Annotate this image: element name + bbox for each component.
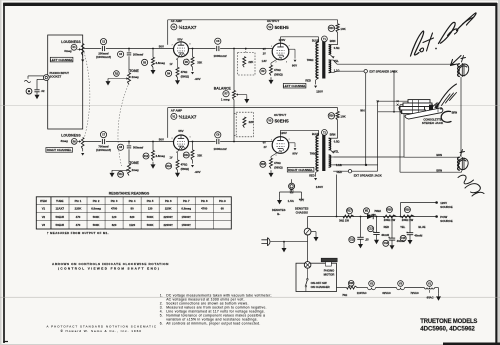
svg-text:R11: R11 bbox=[118, 173, 123, 176]
label RIGHT CHANNEL boxed 2 bbox=[287, 167, 314, 172]
capacitor C2 bbox=[96, 46, 111, 59]
svg-text:4700: 4700 bbox=[201, 207, 208, 211]
arrow -90V bottom bbox=[191, 160, 201, 174]
control R1 loudness left bbox=[64, 44, 77, 53]
svg-text:110VAC: 110VAC bbox=[357, 291, 367, 295]
svg-text:R15: R15 bbox=[261, 163, 266, 166]
transformer T1 primary bbox=[316, 40, 319, 79]
wire jack v 394 bbox=[393, 70, 395, 112]
svg-text:(1000mmf): (1000mmf) bbox=[96, 55, 111, 59]
wire phono upper bbox=[28, 76, 44, 79]
svg-text:80: 80 bbox=[131, 207, 135, 211]
svg-text:120V: 120V bbox=[279, 38, 286, 42]
svg-text:RESISTANCE READINGS: RESISTANCE READINGS bbox=[109, 191, 150, 195]
svg-text:3: 3 bbox=[176, 152, 177, 154]
wire heater line bbox=[337, 287, 347, 289]
T1 red lead bbox=[305, 78, 323, 94]
ground below C1 bbox=[35, 92, 40, 99]
svg-text:BRN: BRN bbox=[436, 153, 442, 157]
svg-text:LEFT CHANNEL: LEFT CHANNEL bbox=[283, 84, 306, 88]
svg-text:RED: RED bbox=[384, 225, 390, 229]
svg-text:15000†: 15000† bbox=[182, 215, 192, 219]
svg-text:MOTOR: MOTOR bbox=[324, 272, 336, 276]
fuse symbol bbox=[288, 189, 295, 203]
label 90V top bbox=[292, 63, 297, 67]
resistor R19 filter bbox=[401, 207, 414, 222]
svg-text:90V: 90V bbox=[292, 151, 297, 155]
svg-text:A PHOTOFACT STANDARD NOTATION: A PHOTOFACT STANDARD NOTATION SCHEMATIC bbox=[47, 324, 158, 328]
svg-text:0V: 0V bbox=[263, 141, 266, 144]
on-off switch bbox=[305, 268, 308, 291]
svg-text:7: 7 bbox=[289, 45, 290, 47]
label CONSOLETTE STEREO JACK bbox=[422, 118, 444, 126]
wire to tone cap bbox=[128, 49, 130, 73]
wire heater 3 bbox=[404, 288, 424, 296]
cathode wire V3 bbox=[271, 153, 278, 159]
phono motor box outer bbox=[296, 263, 337, 291]
ground tone top bbox=[106, 79, 111, 86]
B+ rail top bbox=[168, 20, 338, 45]
svg-text:BRN: BRN bbox=[452, 111, 458, 115]
svg-text:70MA: 70MA bbox=[374, 209, 381, 213]
wire top channel main bbox=[84, 48, 273, 50]
C7 designator bbox=[100, 132, 106, 138]
ground cathode V3 bbox=[269, 170, 274, 177]
svg-text:AF AMP: AF AMP bbox=[171, 19, 182, 23]
B+ rail bottom bbox=[168, 108, 338, 138]
resistor R9k cathode V2 bbox=[260, 65, 283, 76]
ground below R12 bbox=[151, 162, 156, 169]
motor M3 bbox=[304, 262, 311, 269]
svg-text:(560Ω): (560Ω) bbox=[181, 74, 190, 78]
svg-text:22K: 22K bbox=[249, 120, 254, 124]
label TONE top bbox=[129, 69, 139, 73]
wire V3 plate bbox=[281, 130, 319, 137]
tube V2 designator bbox=[267, 24, 289, 30]
svg-text:RED: RED bbox=[309, 173, 315, 177]
svg-text:C12: C12 bbox=[350, 239, 355, 242]
svg-text:500K: 500K bbox=[147, 215, 154, 219]
capacitor C3 series bbox=[127, 53, 143, 57]
svg-text:470: 470 bbox=[76, 215, 81, 219]
svg-text:Pin 7: Pin 7 bbox=[183, 199, 190, 203]
svg-text:0V: 0V bbox=[263, 48, 266, 51]
svg-text:50V: 50V bbox=[159, 45, 164, 49]
svg-text:BRN: BRN bbox=[436, 168, 442, 172]
svg-text:ON CHANGER: ON CHANGER bbox=[311, 285, 330, 289]
speaker top scribble bbox=[459, 64, 469, 75]
fold line lower bbox=[0, 296, 500, 298]
heater V3 bbox=[397, 281, 405, 290]
label 50V bottom bbox=[159, 138, 164, 142]
transformer T1 designator bbox=[312, 36, 336, 43]
pin numbers V3 bbox=[271, 139, 290, 157]
svg-text:2: 2 bbox=[276, 61, 277, 63]
resistor R16 10K bottom bbox=[328, 111, 346, 120]
svg-text:YEL: YEL bbox=[334, 149, 339, 153]
svg-text:C14: C14 bbox=[384, 242, 389, 245]
capacitor C9 coupling bottom bbox=[213, 132, 226, 152]
ground balance wiper bbox=[244, 96, 249, 103]
svg-text:Pin 2: Pin 2 bbox=[93, 199, 100, 203]
truetone models title bbox=[420, 319, 477, 333]
svg-text:V1: V1 bbox=[42, 207, 46, 211]
loudness right bottom arrow bbox=[81, 149, 84, 155]
ground C15 bbox=[408, 235, 413, 245]
transformer T2 core bbox=[322, 135, 325, 171]
ac plug bbox=[261, 238, 270, 246]
svg-text:1: 1 bbox=[271, 140, 272, 142]
pin numbers V2 bbox=[271, 45, 290, 63]
label 55V bottom bbox=[178, 129, 183, 133]
capacitor C1 bbox=[34, 89, 45, 93]
svg-text:470: 470 bbox=[76, 223, 81, 227]
svg-text:620: 620 bbox=[130, 215, 135, 219]
handwriting Left bbox=[411, 31, 437, 56]
svg-text:SOURCE: SOURCE bbox=[440, 205, 452, 209]
op V2 pentode bbox=[272, 43, 289, 60]
label 1V bottom bbox=[170, 156, 173, 159]
svg-text:TRUETONE MODELS: TRUETONE MODELS bbox=[420, 319, 477, 325]
resistor R12 grid leak bottom bbox=[143, 142, 165, 161]
handwriting P flen bbox=[437, 84, 457, 108]
svg-text:½12AX7: ½12AX7 bbox=[179, 113, 197, 119]
svg-text:2meg: 2meg bbox=[132, 168, 139, 172]
svg-text:Pin 1: Pin 1 bbox=[75, 199, 82, 203]
svg-text:R10: R10 bbox=[329, 27, 334, 30]
node R12 top bbox=[152, 141, 154, 143]
svg-text:SOURCE: SOURCE bbox=[440, 219, 452, 223]
record changer block outline bbox=[48, 35, 83, 129]
node junction tone top bbox=[128, 48, 130, 50]
svg-text:CHASSIS: CHASSIS bbox=[296, 210, 309, 214]
wire ext jack top bbox=[333, 71, 364, 72]
resistor R10 10K bbox=[328, 24, 346, 33]
svg-text:6.8meg: 6.8meg bbox=[156, 154, 166, 158]
wire ext jack bottom 2 bbox=[333, 170, 377, 172]
svg-text:B-: B- bbox=[277, 212, 280, 216]
capacitor C12 bbox=[349, 216, 369, 243]
cathode wire V2 bbox=[271, 59, 278, 65]
wire right channel main bbox=[84, 141, 273, 143]
svg-text:39Ω 1W: 39Ω 1W bbox=[339, 219, 349, 223]
svg-text:STEREO JACK: STEREO JACK bbox=[422, 121, 444, 125]
resistor R20 ballast bbox=[342, 281, 357, 297]
wire plug to interlock bbox=[271, 241, 308, 243]
svg-text:12AX7: 12AX7 bbox=[55, 207, 64, 211]
terminal pow source bbox=[435, 215, 452, 223]
label 55V top bbox=[177, 37, 182, 41]
speaker bottom scribble bbox=[458, 158, 468, 169]
svg-text:22000†: 22000† bbox=[164, 223, 174, 227]
node R3 top bbox=[152, 48, 154, 50]
svg-text:0.5Ω: 0.5Ω bbox=[334, 46, 340, 50]
C8 designator bbox=[118, 144, 124, 150]
svg-text:4DC5960, 4DC5962: 4DC5960, 4DC5962 bbox=[420, 326, 475, 333]
wire to tone cap bottom bbox=[128, 142, 130, 164]
ground cathode V1b bbox=[175, 170, 180, 177]
loudness left bottom arrow bbox=[81, 56, 84, 63]
handwriting check arrow bbox=[451, 56, 462, 66]
svg-text:55V: 55V bbox=[177, 37, 182, 41]
resistor R8 22K top bbox=[243, 57, 254, 68]
label 50V top bbox=[159, 45, 164, 49]
svg-text:BLUE: BLUE bbox=[418, 225, 425, 229]
svg-text:R17: R17 bbox=[347, 210, 352, 213]
svg-text:Pin 3: Pin 3 bbox=[111, 199, 118, 203]
svg-text:120V: 120V bbox=[280, 131, 287, 135]
svg-text:620: 620 bbox=[112, 223, 117, 227]
speaker coil top bbox=[458, 63, 464, 77]
wire R16 to T2 bbox=[331, 108, 338, 139]
T1 taps bbox=[329, 45, 340, 73]
node balance bottom bbox=[233, 141, 235, 143]
svg-text:OUTPUT: OUTPUT bbox=[274, 113, 287, 117]
svg-text:1.5A: 1.5A bbox=[288, 199, 295, 203]
label BLUE filter bbox=[418, 225, 425, 229]
svg-text:2: 2 bbox=[172, 138, 173, 140]
label LEFT CHANNEL boxed bbox=[50, 57, 73, 62]
svg-text:.25: .25 bbox=[365, 238, 369, 242]
screen arrow 90V bottom bbox=[288, 143, 296, 151]
ground C12 bbox=[358, 239, 363, 248]
svg-text:4700: 4700 bbox=[111, 207, 118, 211]
tube V1 designator top bbox=[171, 24, 197, 30]
svg-text:470Ω: 470Ω bbox=[274, 161, 281, 165]
svg-text:6: 6 bbox=[190, 43, 191, 45]
wire speaker top bbox=[333, 60, 459, 64]
ground cathode V1a bbox=[175, 78, 180, 85]
svg-text:130: 130 bbox=[148, 207, 153, 211]
wire ext jack bottom bbox=[333, 164, 367, 166]
svg-text:120: 120 bbox=[112, 215, 117, 219]
stereo jack contact 2 bbox=[403, 103, 432, 107]
svg-text:.02: .02 bbox=[41, 89, 45, 93]
stereo jack plug outline bbox=[405, 108, 443, 119]
svg-text:SOCKET: SOCKET bbox=[50, 75, 62, 79]
wire heater 1 bbox=[357, 288, 368, 296]
phono input socket bbox=[43, 71, 69, 81]
svg-text:RIGHT CHANNEL: RIGHT CHANNEL bbox=[288, 168, 313, 172]
svg-text:† MEASURED FROM OUTPUT OF M1: † MEASURED FROM OUTPUT OF M1. bbox=[47, 231, 109, 235]
svg-text:470Ω: 470Ω bbox=[181, 70, 188, 74]
svg-text:YEL: YEL bbox=[334, 59, 339, 63]
wire V2 plate bbox=[281, 37, 319, 44]
svg-text:1V: 1V bbox=[170, 156, 173, 159]
label 120V top bbox=[279, 38, 286, 42]
cathode wire V1b bbox=[178, 150, 180, 160]
svg-text:22000†: 22000† bbox=[164, 215, 174, 219]
svg-text:R14: R14 bbox=[184, 154, 189, 157]
notes list bbox=[160, 294, 272, 326]
tube V1 designator bottom bbox=[171, 113, 197, 119]
svg-text:22K: 22K bbox=[248, 60, 253, 64]
heater V1 bbox=[425, 281, 435, 289]
svg-text:Pin 5: Pin 5 bbox=[147, 199, 154, 203]
label 1V top bbox=[170, 63, 173, 66]
C1 designator bbox=[26, 88, 32, 94]
svg-text:1: 1 bbox=[271, 46, 272, 48]
svg-text:3meg: 3meg bbox=[64, 49, 72, 53]
svg-text:15000†: 15000† bbox=[182, 223, 192, 227]
wire interlock to motor bbox=[307, 235, 309, 262]
svg-text:50EH5: 50EH5 bbox=[55, 215, 64, 219]
svg-text:140V: 140V bbox=[371, 214, 377, 217]
handwritten F top bbox=[461, 56, 466, 63]
capacitor C8 series bbox=[127, 146, 143, 150]
svg-text:½12AX7: ½12AX7 bbox=[179, 24, 197, 30]
svg-text:500K: 500K bbox=[147, 223, 154, 227]
wire jack step bottom bbox=[367, 165, 378, 171]
svg-text:7: 7 bbox=[289, 139, 290, 141]
wire heater end bbox=[435, 288, 442, 301]
svg-text:10K: 10K bbox=[340, 27, 346, 31]
ext speaker jack bottom bbox=[348, 170, 382, 178]
svg-text:50EH5: 50EH5 bbox=[55, 223, 64, 227]
node 22K top bbox=[245, 48, 247, 53]
wire jack v 377 bbox=[377, 101, 379, 165]
svg-text:YEL: YEL bbox=[400, 225, 405, 229]
svg-text:Pin 4: Pin 4 bbox=[129, 199, 136, 203]
svg-text:230Ω 1W: 230Ω 1W bbox=[402, 218, 414, 222]
gang dashed loudness bbox=[84, 52, 90, 137]
stereo jack contact 4 bbox=[402, 110, 426, 114]
svg-text:R13: R13 bbox=[166, 165, 171, 168]
svg-text:470Ω: 470Ω bbox=[274, 68, 281, 72]
svg-text:2V: 2V bbox=[263, 52, 266, 55]
svg-text:130V: 130V bbox=[316, 185, 324, 189]
svg-text:V3: V3 bbox=[42, 223, 46, 227]
legend tee bbox=[280, 192, 302, 197]
loudness right pot bbox=[78, 138, 84, 150]
tone pot bottom bbox=[128, 164, 139, 176]
gang dashed tone bbox=[118, 86, 128, 167]
dashed box 22K bottom bbox=[234, 112, 254, 137]
svg-text:500mmf: 500mmf bbox=[133, 146, 143, 150]
label 90V bottom bbox=[292, 151, 297, 155]
wire R10 to T1 bbox=[331, 20, 338, 45]
svg-text:780Ω: 780Ω bbox=[310, 151, 317, 155]
svg-text:1000mmf: 1000mmf bbox=[213, 54, 226, 58]
dashed box 22K top bbox=[238, 53, 255, 75]
legend B- ground bbox=[272, 197, 286, 216]
capacitor C7 bbox=[96, 139, 111, 152]
transformer T1 secondary bbox=[329, 45, 335, 73]
label OUTPUT top bbox=[267, 19, 280, 23]
svg-text:RIGHT CHANNEL: RIGHT CHANNEL bbox=[47, 148, 72, 152]
svg-text:BRN: BRN bbox=[330, 132, 336, 136]
stereo jack contact 3 bbox=[400, 107, 425, 111]
heater V2 bbox=[368, 281, 376, 290]
svg-text:OUTPUT: OUTPUT bbox=[267, 19, 280, 23]
label LOUDNESS (left) bbox=[61, 40, 81, 44]
screen arrow 90V top bbox=[288, 49, 296, 62]
svg-text:780Ω: 780Ω bbox=[307, 58, 314, 62]
ground ac neutral bbox=[282, 241, 287, 253]
svg-text:TUBE: TUBE bbox=[56, 199, 64, 203]
tube V3 designator bbox=[267, 118, 289, 124]
svg-text:500K: 500K bbox=[93, 215, 100, 219]
svg-text:-90V: -90V bbox=[194, 170, 200, 174]
table resistance readings bbox=[36, 191, 231, 235]
balance pot R7 bbox=[221, 90, 236, 101]
resistor R3 grid leak top bbox=[142, 49, 166, 68]
resistor 33K bottom bbox=[183, 141, 202, 161]
svg-text:1.: 1. bbox=[160, 294, 163, 298]
svg-text:C15: C15 bbox=[401, 237, 406, 240]
label BALANCE bbox=[214, 86, 232, 90]
svg-text:1 meg: 1 meg bbox=[221, 97, 230, 101]
svg-text:1120: 1120 bbox=[129, 223, 136, 227]
svg-text:120V: 120V bbox=[316, 90, 323, 94]
svg-text:BALANCE: BALANCE bbox=[214, 86, 232, 90]
stereo jack right terminals bbox=[437, 104, 443, 112]
wire speaker bottom return bbox=[461, 171, 463, 173]
pin numbers V1a bbox=[172, 43, 191, 60]
tone pot top R2 bbox=[128, 73, 139, 85]
svg-text:50EH5: 50EH5 bbox=[275, 25, 289, 30]
stereo jack wires left bbox=[378, 101, 408, 112]
svg-text:R12: R12 bbox=[144, 155, 149, 158]
svg-text:500K: 500K bbox=[93, 223, 100, 227]
resistor R5 33K top bbox=[183, 48, 202, 68]
rectifier M1 bbox=[364, 208, 382, 219]
label 780 ohm T2 bbox=[310, 151, 317, 155]
label AF AMP top bbox=[171, 19, 182, 23]
svg-text:1V: 1V bbox=[170, 63, 173, 66]
svg-text:RED: RED bbox=[305, 79, 311, 83]
label 780 ohm T1 bbox=[307, 58, 314, 62]
svg-text:Pin 9: Pin 9 bbox=[219, 199, 226, 203]
transformer T2 designator bbox=[312, 130, 336, 137]
node balance top bbox=[233, 48, 235, 50]
stereo jack gang ticks bbox=[413, 100, 419, 114]
svg-text:50V: 50V bbox=[159, 138, 164, 142]
svg-text:1000mmf: 1000mmf bbox=[213, 147, 226, 151]
svg-text:10K: 10K bbox=[340, 115, 346, 119]
ground C14 bbox=[390, 240, 395, 249]
svg-text:LEFT CHANNEL: LEFT CHANNEL bbox=[50, 58, 73, 62]
wire jack v 400 bbox=[399, 105, 401, 173]
ground C13 bbox=[374, 235, 379, 245]
svg-text:(1200mmf): (1200mmf) bbox=[96, 148, 111, 152]
tone top control designator bbox=[114, 71, 120, 77]
op V3 pentode bbox=[272, 137, 289, 154]
fold line upper bbox=[0, 105, 500, 107]
photofact credit bbox=[47, 324, 158, 333]
heater V1 tap bbox=[427, 290, 434, 300]
interlock ground bbox=[311, 232, 319, 242]
svg-text:BRN: BRN bbox=[330, 39, 336, 43]
transformer T2 secondary bbox=[329, 138, 335, 167]
labels V2 left bbox=[262, 48, 267, 63]
svg-text:ARROWS ON CONTROLS INDICATE CL: ARROWS ON CONTROLS INDICATE CLOCKWISE RO… bbox=[52, 262, 169, 266]
svg-text:(560Ω): (560Ω) bbox=[274, 165, 283, 169]
label LOUDNESS (right) bbox=[61, 134, 81, 138]
label 120V bottom bbox=[280, 131, 287, 135]
handwritten C bbox=[441, 111, 451, 122]
svg-text:220K: 220K bbox=[165, 207, 172, 211]
capacitor C13 bbox=[368, 216, 390, 238]
label ON-OFF SW bbox=[311, 281, 330, 289]
handwriting Dead bbox=[439, 13, 477, 44]
cathode wire V1a bbox=[178, 57, 180, 68]
transformer T1 core bbox=[322, 42, 325, 79]
ground tone bottom bbox=[110, 170, 115, 177]
handwriting arrow into jack bbox=[431, 103, 438, 110]
transformer T2 primary bbox=[316, 133, 319, 171]
wire phono lower bbox=[37, 79, 44, 89]
